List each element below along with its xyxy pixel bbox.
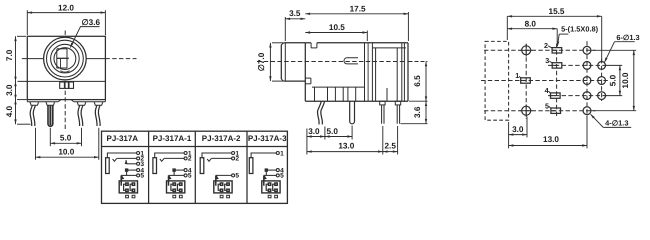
pin 4 (bent leg) [95, 105, 100, 126]
side bent pin [317, 101, 324, 124]
table headers [107, 134, 288, 143]
dimension 3.0 (side pins) [307, 127, 325, 155]
front view body seam line [18, 80, 106, 82]
svg-text:5: 5 [188, 173, 192, 180]
schematic PJ-317A-1: terminal 5 [184, 173, 192, 180]
dimension 12.0 (front width) [27, 4, 105, 35]
side view: barrel (bushing) [281, 43, 305, 81]
svg-text:10.5: 10.5 [329, 23, 345, 32]
svg-text:5.0: 5.0 [60, 134, 72, 143]
mounting hole bottom-left [520, 104, 533, 117]
schematic PJ-317A: terminals 4-5 switch [121, 169, 136, 180]
schematic PJ-317A-1: terminal 4 [184, 167, 192, 174]
solder slot 5 [551, 108, 561, 113]
svg-text:10.0: 10.0 [621, 72, 630, 88]
svg-text:15.5: 15.5 [549, 7, 565, 16]
svg-text:5: 5 [545, 101, 549, 110]
dimension 3.5 (barrel protrusion) [285, 9, 305, 41]
pin 1 (bent leg) [30, 105, 35, 126]
schematic PJ-317A: terminal 3 arm [125, 160, 137, 164]
schematic PJ-317A-1: pad footprint icon [167, 175, 185, 197]
svg-text:7.0: 7.0 [5, 49, 14, 61]
svg-text:PJ-317A-2: PJ-317A-2 [202, 134, 241, 143]
dimension 13.0 (side pin span) [307, 126, 383, 155]
label 5-(1.5X0.8) with leader [557, 24, 599, 46]
side PCB pin 1 with shoulder [380, 101, 385, 124]
svg-text:2: 2 [188, 156, 192, 163]
pin 1 shoulder [30, 102, 39, 106]
pin hole col1 row 1 [583, 46, 591, 54]
pin hole col1 row 5 [583, 107, 591, 115]
dimension dia 7.0 (barrel) [257, 43, 283, 81]
svg-text:1: 1 [515, 71, 519, 80]
mounting hole top-left [520, 44, 533, 57]
pin hole col1 row 3 [583, 77, 591, 85]
dimension 15.5 (footprint width) [507, 7, 601, 61]
schematic PJ-317A: terminal 3 [137, 161, 145, 168]
svg-text:13.0: 13.0 [543, 135, 559, 144]
schematic PJ-317A-2: pad footprint icon [214, 175, 232, 197]
PCB row center lines [481, 50, 610, 110]
side PCB pin 2 with shoulder [395, 101, 400, 124]
schematic PJ-317A: pad footprint icon [119, 175, 137, 197]
svg-text:∅7.0: ∅7.0 [257, 52, 266, 71]
keying tab below barrel [60, 82, 74, 88]
dimension 10.5 [305, 23, 367, 41]
svg-text:17.5: 17.5 [350, 5, 366, 14]
svg-text:∅3.6: ∅3.6 [82, 18, 101, 27]
pin hole col2 row 4 [598, 92, 606, 100]
pin 2 shoulder [46, 102, 55, 106]
solder slot 1 [521, 78, 531, 83]
solder slot 4 [551, 93, 561, 98]
side view rear contact block [365, 43, 407, 101]
schematic PJ-317A-2: sleeve bar [200, 158, 204, 174]
side view body outline [305, 43, 408, 101]
schematic PJ-317A-3: terminal 4 [276, 167, 284, 174]
pin hole col2 row 3 [598, 77, 606, 85]
pin 3 (bent leg) [78, 105, 83, 126]
svg-text:3: 3 [545, 56, 549, 65]
svg-text:3.6: 3.6 [413, 106, 422, 118]
side view internal seam and bosses [312, 87, 365, 101]
schematic PJ-317A: terminal 4 [137, 167, 145, 174]
schematic PJ-317A: switch contact [113, 158, 137, 161]
svg-text:PJ-317A: PJ-317A [107, 134, 139, 143]
dimension 5.0 (front pin pitch) [50, 128, 81, 146]
side round-tip pin [350, 101, 355, 124]
label 6-dia1.3 with leader [604, 33, 639, 62]
svg-text:6.5: 6.5 [413, 75, 422, 87]
schematic PJ-317A-1: wire to terminal 1 [155, 153, 184, 158]
PCB column center lines [526, 41, 601, 119]
svg-text:4.0: 4.0 [5, 105, 14, 117]
dimension 17.5 (body length) [305, 5, 408, 42]
schematic PJ-317A-2: terminal 5 wire [216, 175, 232, 180]
schematic PJ-317A-2: terminal 5 [232, 173, 240, 180]
svg-text:5-(1.5X0.8): 5-(1.5X0.8) [561, 24, 599, 33]
dimension 3.6 (pin length) [401, 101, 428, 124]
label dia 3.6 with leader [70, 18, 100, 47]
svg-text:6-∅1.3: 6-∅1.3 [616, 33, 639, 42]
schematic PJ-317A-3: terminals 4-5 switch [264, 169, 277, 180]
pin 2 (square post) [48, 105, 53, 126]
pin 4 shoulder [94, 102, 103, 106]
dimension 2.5 (rear pin pitch) [383, 126, 398, 155]
svg-text:3.0: 3.0 [512, 125, 524, 134]
schematic PJ-317A-2: terminal 1 [232, 150, 240, 157]
schematic PJ-317A-1: terminal 2 [184, 156, 192, 163]
svg-text:3.5: 3.5 [289, 9, 301, 18]
svg-text:5.0: 5.0 [327, 127, 339, 136]
svg-text:5.0: 5.0 [608, 74, 617, 86]
dimension 5.0 (side pins) [325, 126, 352, 140]
dimension 8.0 [507, 19, 557, 45]
svg-text:PJ-317A-3: PJ-317A-3 [248, 134, 287, 143]
dimension 13.0 (footprint) [509, 116, 587, 149]
svg-text:12.0: 12.0 [58, 4, 74, 13]
front view vertical center line [64, 31, 66, 132]
dimension 6.5 (rear height) [409, 62, 428, 102]
svg-text:13.0: 13.0 [338, 141, 354, 150]
schematic PJ-317A-3: sleeve bar [249, 158, 253, 174]
svg-text:3.0: 3.0 [5, 84, 14, 96]
schematic PJ-317A: terminal 2 [137, 156, 145, 163]
schematic PJ-317A: terminal 5 [137, 173, 145, 180]
front view horizontal center line [22, 58, 137, 60]
slot pin number labels [515, 41, 552, 110]
dimension 5.0 (hole pitch) [606, 65, 622, 95]
svg-text:1: 1 [280, 150, 284, 157]
schematic PJ-317A-1: terminals 4-5 switch [168, 169, 184, 180]
pin 3 shoulder [77, 102, 86, 106]
schematic PJ-317A-3: wire to terminal 1 [251, 153, 276, 158]
side view tip spring slot [344, 58, 358, 64]
schematic PJ-317A-1: sleeve bar [153, 158, 157, 174]
jack barrel concentric rings [44, 37, 87, 80]
svg-text:5: 5 [235, 173, 239, 180]
schematic PJ-317A-3: pad footprint icon [262, 175, 280, 197]
schematic PJ-317A: wire to terminal 1 [107, 153, 136, 158]
dimension 10.0 (hole span) [591, 50, 636, 110]
svg-text:4-∅1.3: 4-∅1.3 [605, 119, 628, 128]
schematic PJ-317A-3: terminal 1 [276, 150, 284, 157]
dimension 10.0 (front pin span) [36, 128, 99, 160]
side view front latch notch [305, 78, 311, 84]
tip contact seen through hole [57, 49, 70, 72]
pin hole col1 row 2 [583, 62, 591, 70]
schematic PJ-317A-2: wire to terminal 1 [202, 153, 232, 158]
pin hole col1 row 4 [583, 92, 591, 100]
pin hole col2 row 2 [598, 62, 606, 70]
svg-text:2.5: 2.5 [385, 142, 397, 151]
svg-text:PJ-317A-1: PJ-317A-1 [153, 134, 192, 143]
solder slot 2 [552, 48, 562, 53]
PCB layout: hidden body outline (dashed) [485, 41, 509, 120]
schematic PJ-317A-1: switch contact [160, 158, 184, 161]
schematic PJ-317A-2: switch contact [207, 158, 231, 161]
svg-text:2: 2 [544, 41, 548, 50]
label 4-dia1.3 with leader [591, 114, 632, 127]
schematic PJ-317A-3: terminal 5 [276, 173, 284, 180]
svg-text:2: 2 [235, 156, 239, 163]
svg-text:4: 4 [545, 86, 549, 95]
svg-text:8.0: 8.0 [525, 19, 537, 28]
svg-text:3.0: 3.0 [308, 127, 320, 136]
schematic PJ-317A-2: terminal 2 [232, 156, 240, 163]
svg-text:5: 5 [140, 173, 144, 180]
variants table frame [102, 131, 288, 203]
dimension chain 7.0 / 3.0 / 4.0 (front heights) [5, 36, 30, 124]
front view mounting feet [27, 100, 105, 102]
solder slot 3 [552, 63, 562, 68]
svg-text:10.0: 10.0 [58, 148, 74, 157]
front view: jack body outline [27, 36, 105, 99]
schematic PJ-317A: terminal 1 [137, 150, 145, 157]
svg-text:5: 5 [280, 173, 284, 180]
side view center line [257, 61, 404, 63]
schematic PJ-317A: sleeve bar [106, 158, 110, 174]
schematic PJ-317A-1: terminal 1 [184, 150, 192, 157]
dimension 3.0 (footprint) [509, 117, 527, 149]
